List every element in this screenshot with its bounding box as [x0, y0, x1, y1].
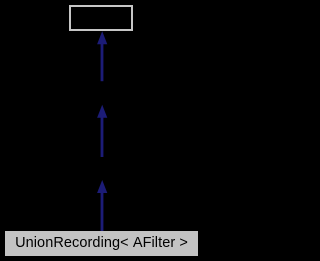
- node: top ancestor class box (unlabeled): [69, 5, 133, 31]
- arrow 2: rank-3 node to rank-2 node: [97, 105, 107, 157]
- arrow 3: UnionRecording&lt; AFilter &gt; to rank-3 node: [97, 180, 107, 231]
- wire: inheritance arrows (midnightblue): [0, 0, 205, 261]
- arrow 1: bottom rank-2 node to top box: [97, 31, 107, 81]
- node: UnionRecording< AFilter > (current class, gray filled): [5, 231, 198, 256]
